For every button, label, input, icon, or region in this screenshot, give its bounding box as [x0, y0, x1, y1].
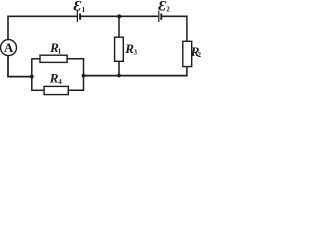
- svg-text:2: 2: [166, 6, 170, 14]
- wire R4 branch right: [68, 89, 84, 91]
- svg-text:Ɛ: Ɛ: [74, 0, 82, 15]
- battery E2: [159, 11, 162, 22]
- resistor R4: [44, 86, 68, 94]
- svg-text:3: 3: [134, 48, 138, 56]
- junction dot bottom (node below R3): [117, 74, 121, 78]
- resistor R2: [183, 41, 192, 66]
- wire right side lower (R2 to bottom-right corner): [186, 67, 188, 77]
- wire top-left to battery E1: [9, 15, 77, 17]
- wire right bar of parallel block: [83, 59, 85, 91]
- battery E1: [77, 11, 80, 22]
- label R2: [190, 44, 202, 59]
- wire battery E2 to top-right corner: [162, 15, 187, 17]
- wire R3 bottom lead: [118, 61, 120, 75]
- svg-text:2: 2: [198, 51, 202, 59]
- label R3: [124, 41, 137, 56]
- resistor R1: [40, 55, 67, 62]
- wire R4 branch left: [31, 89, 44, 91]
- wire bottom (R3 node to bottom-right corner): [119, 75, 188, 77]
- ammeter A1: [1, 40, 17, 56]
- wire left side upper (corner to ammeter): [7, 16, 9, 41]
- resistor R3: [115, 37, 124, 61]
- svg-text:Ɛ: Ɛ: [158, 0, 166, 15]
- junction dot left (node at R1/R4 split): [30, 75, 34, 79]
- wire bottom (parallel block to R3 node): [84, 75, 120, 77]
- wire left side lower (ammeter to bottom corner): [7, 56, 32, 78]
- svg-text:A: A: [4, 40, 14, 55]
- label E2 (EMF): [158, 0, 170, 15]
- wire right side upper (corner to R2): [186, 16, 188, 42]
- junction dot top (node above R3): [117, 14, 121, 18]
- svg-text:4: 4: [58, 78, 62, 86]
- svg-text:1: 1: [82, 6, 86, 14]
- wire R3 top lead: [118, 16, 120, 37]
- label R1: [49, 40, 62, 55]
- label E1 (EMF): [74, 0, 86, 15]
- wire battery E1 to battery E2: [81, 15, 159, 17]
- wire left bar of parallel block: [31, 59, 33, 91]
- wire R1 branch right: [67, 58, 84, 60]
- junction dot at parallel block output: [82, 74, 86, 78]
- label R4: [49, 71, 62, 86]
- wire R1 branch left: [31, 58, 40, 60]
- svg-text:1: 1: [58, 47, 62, 55]
